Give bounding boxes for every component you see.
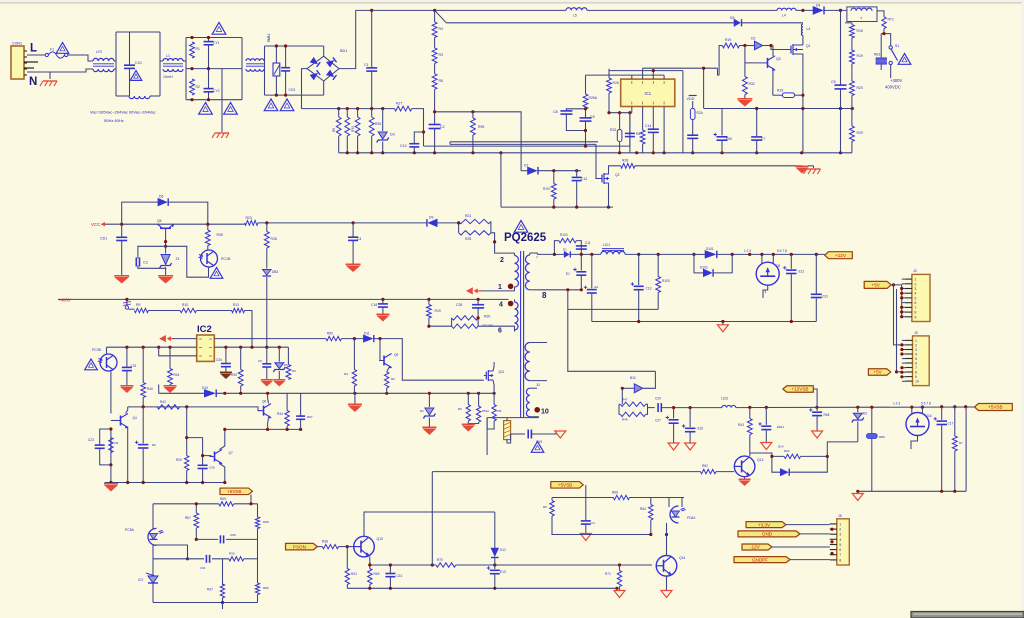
capacitor C28 [456, 299, 484, 318]
wire bridge bottom vertex [323, 81, 325, 95]
ground below R44 [164, 386, 177, 393]
svg-text:2SC945: 2SC945 [482, 324, 493, 328]
snubber left return [500, 153, 502, 207]
svg-text:R103: R103 [662, 279, 670, 283]
diac DB3 [263, 248, 279, 347]
frame3 left [264, 46, 266, 95]
PC3B top pin [106, 347, 108, 354]
C23 R48 pair [88, 429, 119, 465]
wire RE1 tap [881, 33, 884, 35]
ground aux [796, 166, 809, 173]
svg-text:R18: R18 [857, 29, 863, 33]
resistor R41 [345, 547, 357, 589]
junction rail338 [353, 337, 382, 340]
R62 to base [716, 471, 734, 473]
svg-text:10: 10 [541, 409, 549, 416]
wire Q1 source [798, 54, 803, 95]
svg-text:D4: D4 [816, 4, 820, 8]
base to Q10 [347, 546, 354, 548]
CX1 frame bottom with inductor [116, 96, 160, 99]
svg-text:C23: C23 [88, 438, 94, 442]
cap E48 [809, 389, 829, 431]
svg-text:R8: R8 [636, 132, 640, 136]
svg-text:R33: R33 [777, 89, 783, 93]
svg-text:CY2: CY2 [213, 89, 220, 93]
wire D2 to gate [763, 46, 789, 50]
pin ticks 12vsb b [921, 402, 931, 406]
pin header ticks b [777, 249, 787, 253]
svg-text:VCC: VCC [91, 222, 100, 227]
Q13 base col [431, 472, 433, 565]
IC1 control box [621, 79, 675, 106]
wire mid tie [153, 545, 188, 559]
pin ticks 12vsb a [893, 402, 900, 406]
svg-text:1: 1 [915, 339, 917, 343]
transistor Q10 [354, 536, 383, 557]
svg-text:C6: C6 [258, 359, 262, 363]
resistor R10 [148, 303, 196, 313]
svg-text:IC2: IC2 [197, 324, 212, 335]
junction bottom pson [368, 587, 618, 590]
resistor R33 [773, 89, 803, 98]
svg-text:Q11: Q11 [499, 370, 505, 374]
svg-text:R29: R29 [857, 131, 863, 135]
resistor R7 [345, 109, 350, 153]
capacitor E104 [758, 407, 784, 442]
wire L1 out top [183, 60, 186, 62]
svg-text:R5: R5 [458, 407, 462, 411]
junction snubber pq [427, 316, 479, 328]
svg-text:5: 5 [839, 543, 841, 547]
svg-text:D11: D11 [364, 332, 370, 336]
warning triangle above PQ2625 [514, 221, 528, 233]
capacitor C41 [385, 565, 402, 588]
svg-text:CY1: CY1 [213, 41, 220, 45]
resistor R53 [492, 393, 502, 421]
transformer PQ2625 core [521, 251, 524, 418]
earth ground mid filter [212, 133, 229, 138]
svg-text:C27: C27 [655, 419, 661, 423]
Q4 collector [126, 407, 128, 414]
junction Q7 base [201, 454, 204, 457]
svg-text:VDD: VDD [687, 97, 695, 101]
secondary winding 10 [526, 388, 537, 417]
resistor R20b [176, 407, 189, 483]
resistor R43 [738, 407, 752, 451]
svg-text:R68: R68 [263, 520, 269, 524]
warning triangle left PC3B [85, 359, 98, 370]
clamp left tie [458, 222, 460, 233]
svg-text:R42: R42 [160, 400, 166, 404]
svg-text:7: 7 [839, 553, 841, 557]
svg-text:E10: E10 [698, 427, 704, 431]
second bus with D5 [446, 16, 803, 23]
svg-text:R5: R5 [439, 79, 443, 83]
resistor R5 [432, 63, 443, 89]
fuse bottom stub [507, 434, 511, 443]
svg-text:R48: R48 [824, 413, 830, 417]
Q7 emitter [220, 464, 225, 483]
svg-text:L5: L5 [573, 14, 577, 18]
resistor R51 [385, 368, 396, 394]
svg-text:C7: C7 [761, 137, 765, 141]
svg-text:R71: R71 [605, 572, 611, 576]
label PQ2625 [504, 232, 547, 244]
resistor R92 [369, 109, 381, 153]
mid wire2 [153, 552, 258, 571]
svg-text:C29: C29 [655, 397, 661, 401]
wire D9 to clamp [437, 222, 458, 224]
junction brg rail [856, 490, 956, 493]
svg-text:C9: C9 [590, 115, 595, 119]
bead FB1 [867, 407, 885, 491]
resistor R19b [722, 38, 739, 48]
junction VCC rail [120, 223, 209, 226]
svg-text:R99: R99 [478, 125, 484, 129]
VCC rail to R28 node [258, 222, 353, 224]
capacitor C36 [258, 347, 271, 380]
svg-text:R67: R67 [185, 516, 191, 520]
ground arrow bus left [104, 483, 118, 492]
wire fuse to choke LF2 [68, 55, 93, 61]
relay switch S1 [889, 44, 899, 65]
pin 10 label [541, 409, 549, 416]
capacitor CY1 [204, 38, 220, 69]
flag +5Va [864, 281, 891, 288]
svg-text:+5VSB: +5VSB [227, 489, 241, 494]
svg-text:1: 1 [498, 284, 502, 291]
svg-text:R37: R37 [207, 588, 213, 592]
rail 407 left [128, 407, 262, 411]
capacitor C28b [682, 408, 703, 443]
VCC rail [105, 223, 245, 225]
svg-text:R69: R69 [220, 497, 226, 501]
bottom right gnd rail [858, 407, 966, 491]
junction C23 [109, 427, 112, 466]
flag +5Vb [868, 369, 890, 376]
resistor R20 [850, 64, 863, 109]
svg-text:R6: R6 [332, 128, 336, 132]
secondary winding pins 7-8 [525, 253, 537, 290]
wire R19b left [719, 46, 722, 76]
junction RT1 [882, 32, 885, 35]
inductor L4B [801, 24, 810, 35]
CX1 frame left [115, 32, 117, 96]
resistor R107 [543, 171, 556, 207]
junctions sec rail [553, 253, 818, 256]
snubber to pin6 [478, 326, 514, 330]
resistor R40 [141, 347, 153, 407]
junction sec gnd [637, 320, 793, 323]
junctions frame2 [190, 36, 210, 101]
svg-text:CX3: CX3 [289, 88, 296, 92]
svg-text:D2: D2 [751, 37, 755, 41]
svg-text:2: 2 [500, 257, 504, 264]
diode D9 [427, 216, 437, 227]
svg-text:4: 4 [839, 538, 841, 542]
fuse F1 [45, 48, 68, 59]
svg-text:E1: E1 [566, 272, 570, 276]
resistor R32 body [610, 113, 622, 153]
thermistor RT1 [882, 17, 894, 29]
rail 338 cont [374, 339, 484, 381]
pin 4 label [499, 302, 503, 309]
wire N to choke LF2 [27, 69, 93, 72]
svg-text:R2: R2 [196, 85, 200, 89]
clamp R25 [459, 231, 491, 241]
capacitor C29 [655, 397, 661, 413]
svg-text:IC3: IC3 [138, 578, 143, 582]
svg-text:R102: R102 [560, 233, 568, 237]
svg-text:7: 7 [915, 366, 917, 370]
svg-text:E13: E13 [500, 570, 506, 574]
junction J5 pins [830, 528, 833, 556]
IC pin wire e [631, 107, 633, 113]
diode D5 [734, 19, 742, 26]
ground open Q14 [661, 591, 672, 598]
resistor R49b [344, 339, 357, 394]
transistor Q4 [116, 414, 137, 429]
TL431 IC3 [138, 573, 158, 583]
svg-text:3: 3 [839, 533, 841, 537]
svg-text:+5VSB: +5VSB [558, 483, 572, 488]
ground below C31b [120, 386, 133, 393]
J2 to J3 verticals [894, 285, 899, 372]
svg-text:R32: R32 [749, 82, 755, 86]
svg-text:+12V: +12V [835, 253, 847, 258]
svg-text:4: 4 [915, 353, 917, 357]
svg-text:BD1: BD1 [340, 49, 347, 53]
junction Q10 base [346, 545, 349, 548]
zener D16 [273, 347, 288, 380]
svg-text:R44: R44 [174, 373, 180, 377]
pair to bus [110, 465, 112, 483]
svg-text:3: 3 [914, 287, 916, 291]
capacitor C10 [400, 132, 424, 153]
capacitor C39 [296, 393, 313, 429]
svg-text:+5VSB: +5VSB [988, 405, 1002, 410]
warning triangle near relay [898, 54, 911, 65]
svg-text:Q5: Q5 [776, 264, 780, 268]
svg-text:D7: D7 [524, 164, 528, 168]
rail 338 R50 [214, 332, 363, 341]
wire mid frame2 to earth [221, 69, 223, 132]
bottom primary bus [339, 152, 852, 154]
capacitor E13 [487, 566, 506, 588]
svg-text:2: 2 [914, 282, 916, 286]
svg-text:R35: R35 [217, 233, 223, 237]
standby frame bottom [153, 602, 258, 604]
ground below C4 [346, 264, 361, 272]
svg-text:J5: J5 [838, 514, 842, 518]
flag +12VSB [783, 386, 814, 393]
Q13 base wire [432, 471, 700, 473]
svg-text:C5: C5 [831, 80, 836, 84]
pin8 to R103 tie [568, 290, 658, 310]
svg-text:R89: R89 [263, 586, 269, 590]
frame2 left [185, 38, 187, 100]
svg-text:R51A: R51A [482, 409, 489, 413]
rail 393 [216, 392, 494, 394]
svg-text:+400V: +400V [58, 298, 71, 303]
pin 1 net arrow [466, 287, 515, 294]
svg-text:R4: R4 [344, 372, 348, 376]
inductor L101 [601, 243, 625, 254]
resistor R72 [952, 407, 963, 492]
wire 521 to D7 [521, 170, 527, 172]
ground open below E48 [812, 431, 823, 438]
warning triangle below frame3 left [264, 99, 278, 111]
svg-text:C3: C3 [143, 261, 148, 265]
resistor R49 [368, 557, 380, 589]
svg-text:6: 6 [498, 328, 502, 335]
svg-text:R20: R20 [857, 86, 863, 90]
capacitor C37 [198, 456, 215, 483]
zener D3 [377, 109, 395, 153]
resistor R25A [583, 75, 598, 109]
svg-text:C28: C28 [456, 303, 462, 307]
svg-text:6: 6 [915, 362, 917, 366]
Q16 gate [911, 436, 918, 450]
svg-text:E2: E2 [595, 285, 599, 289]
pin 7 tick [536, 256, 538, 260]
rail 429 [225, 428, 301, 430]
capacitor C42 [581, 521, 595, 533]
svg-text:R64: R64 [640, 507, 646, 511]
svg-text:GNDPF: GNDPF [752, 557, 768, 562]
svg-text:Q16: Q16 [926, 414, 932, 418]
zener Z1 [160, 246, 180, 276]
capacitor C24 [625, 113, 635, 153]
divider out [648, 407, 655, 409]
svg-text:C17: C17 [948, 422, 954, 426]
Q13 collector [749, 451, 751, 456]
svg-text:2: 2 [839, 528, 841, 532]
resistor R51A [476, 393, 489, 422]
ground stub rail393 [348, 393, 362, 412]
IC pin wire a [631, 75, 633, 79]
wire bus2 to R18 [845, 22, 852, 24]
capacitor C31b [122, 347, 137, 386]
diode D4 [813, 4, 824, 15]
svg-text:R5: R5 [498, 409, 502, 413]
wire 5vsb row [552, 497, 684, 499]
svg-text:R2A: R2A [697, 111, 704, 115]
junction clamp rail [265, 221, 355, 224]
junction Q5 base [164, 240, 167, 248]
ground below C16 [376, 314, 389, 321]
svg-text:R89: R89 [879, 435, 885, 439]
svg-text:R11: R11 [233, 303, 239, 307]
buffer D2 [751, 37, 763, 50]
Q7 base branch [187, 438, 212, 456]
svg-text:5 6 7 8: 5 6 7 8 [921, 402, 931, 406]
ground open below C28b [685, 443, 696, 450]
svg-text:C2: C2 [440, 125, 445, 129]
svg-text:PC6A: PC6A [687, 516, 696, 520]
PC6A top right [681, 498, 683, 508]
svg-text:R4: R4 [115, 441, 119, 445]
svg-text:E21: E21 [799, 270, 805, 274]
svg-text:R19: R19 [435, 309, 441, 313]
capacitor CD1 [100, 224, 127, 276]
transistor Q3 [763, 56, 781, 71]
label IC2 [197, 324, 212, 335]
junctions 12VSB rail [672, 405, 967, 409]
resistor R34 [277, 393, 289, 429]
resistor R3 [432, 38, 443, 64]
svg-text:RT1: RT1 [888, 18, 894, 22]
standby frame left [152, 504, 154, 603]
flag +5VSB mid [551, 482, 584, 489]
resistor R28c [264, 223, 276, 248]
warning triangle near F1 [56, 43, 69, 54]
capacitor CX3 [281, 46, 295, 95]
clamp right tie [490, 222, 492, 233]
ground open C42 [580, 534, 591, 541]
wire Q1 source to bus [802, 95, 804, 153]
sr mosfet Q15 [756, 262, 780, 285]
svg-text:Vac=185Vac~264Vac 90Vac~264: Vac=185Vac~264Vac 90Vac~264Vac [90, 110, 156, 115]
junction loop [770, 455, 829, 458]
IC2 box [197, 335, 215, 361]
svg-text:R26: R26 [613, 81, 619, 85]
resistor R29 [850, 109, 863, 153]
svg-text:C31: C31 [131, 364, 137, 368]
svg-text:Q3: Q3 [776, 57, 781, 61]
resistor R45 [286, 347, 296, 379]
flag fan3 [742, 544, 830, 550]
Q16 drain [911, 407, 913, 414]
Q15 gate pin label [765, 290, 767, 294]
svg-text:LF2: LF2 [96, 50, 102, 54]
svg-text:D102: D102 [700, 266, 708, 270]
svg-text:R64: R64 [784, 449, 790, 453]
resistor R1 [190, 42, 200, 58]
svg-text:1: 1 [839, 522, 841, 526]
rail above IC B [609, 71, 683, 153]
PC3B bottom pin [110, 372, 112, 414]
svg-text:R6: R6 [543, 505, 547, 509]
svg-text:400VDC: 400VDC [885, 85, 901, 90]
IC2 left rail [107, 346, 197, 348]
svg-text:IC1: IC1 [645, 91, 652, 96]
resistor R62 [701, 464, 717, 474]
resistor R28b [621, 159, 635, 169]
svg-text:J2: J2 [913, 269, 917, 273]
IC2 right rail [214, 346, 288, 348]
svg-text:L101: L101 [603, 243, 610, 247]
svg-text:CON1: CON1 [12, 42, 22, 46]
svg-text:D6: D6 [159, 195, 163, 199]
capacitor C17 [934, 407, 954, 492]
Q4 emitter [127, 428, 129, 483]
Q7 collector [220, 429, 225, 449]
frame2 top [186, 37, 242, 39]
svg-text:5: 5 [914, 296, 916, 300]
svg-text:10mH: 10mH [163, 75, 173, 79]
frame2 bottom [186, 99, 242, 101]
junction pin8 [566, 288, 583, 291]
resistor R32b [743, 46, 755, 100]
wire Q3 collector [772, 46, 774, 57]
bus bridge negative [302, 109, 424, 147]
ground below D17 [422, 427, 436, 435]
svg-text:R19: R19 [725, 38, 731, 42]
junction IC top [652, 67, 706, 73]
resistor R66 [612, 491, 630, 500]
junctions gnd rail right [755, 107, 854, 110]
